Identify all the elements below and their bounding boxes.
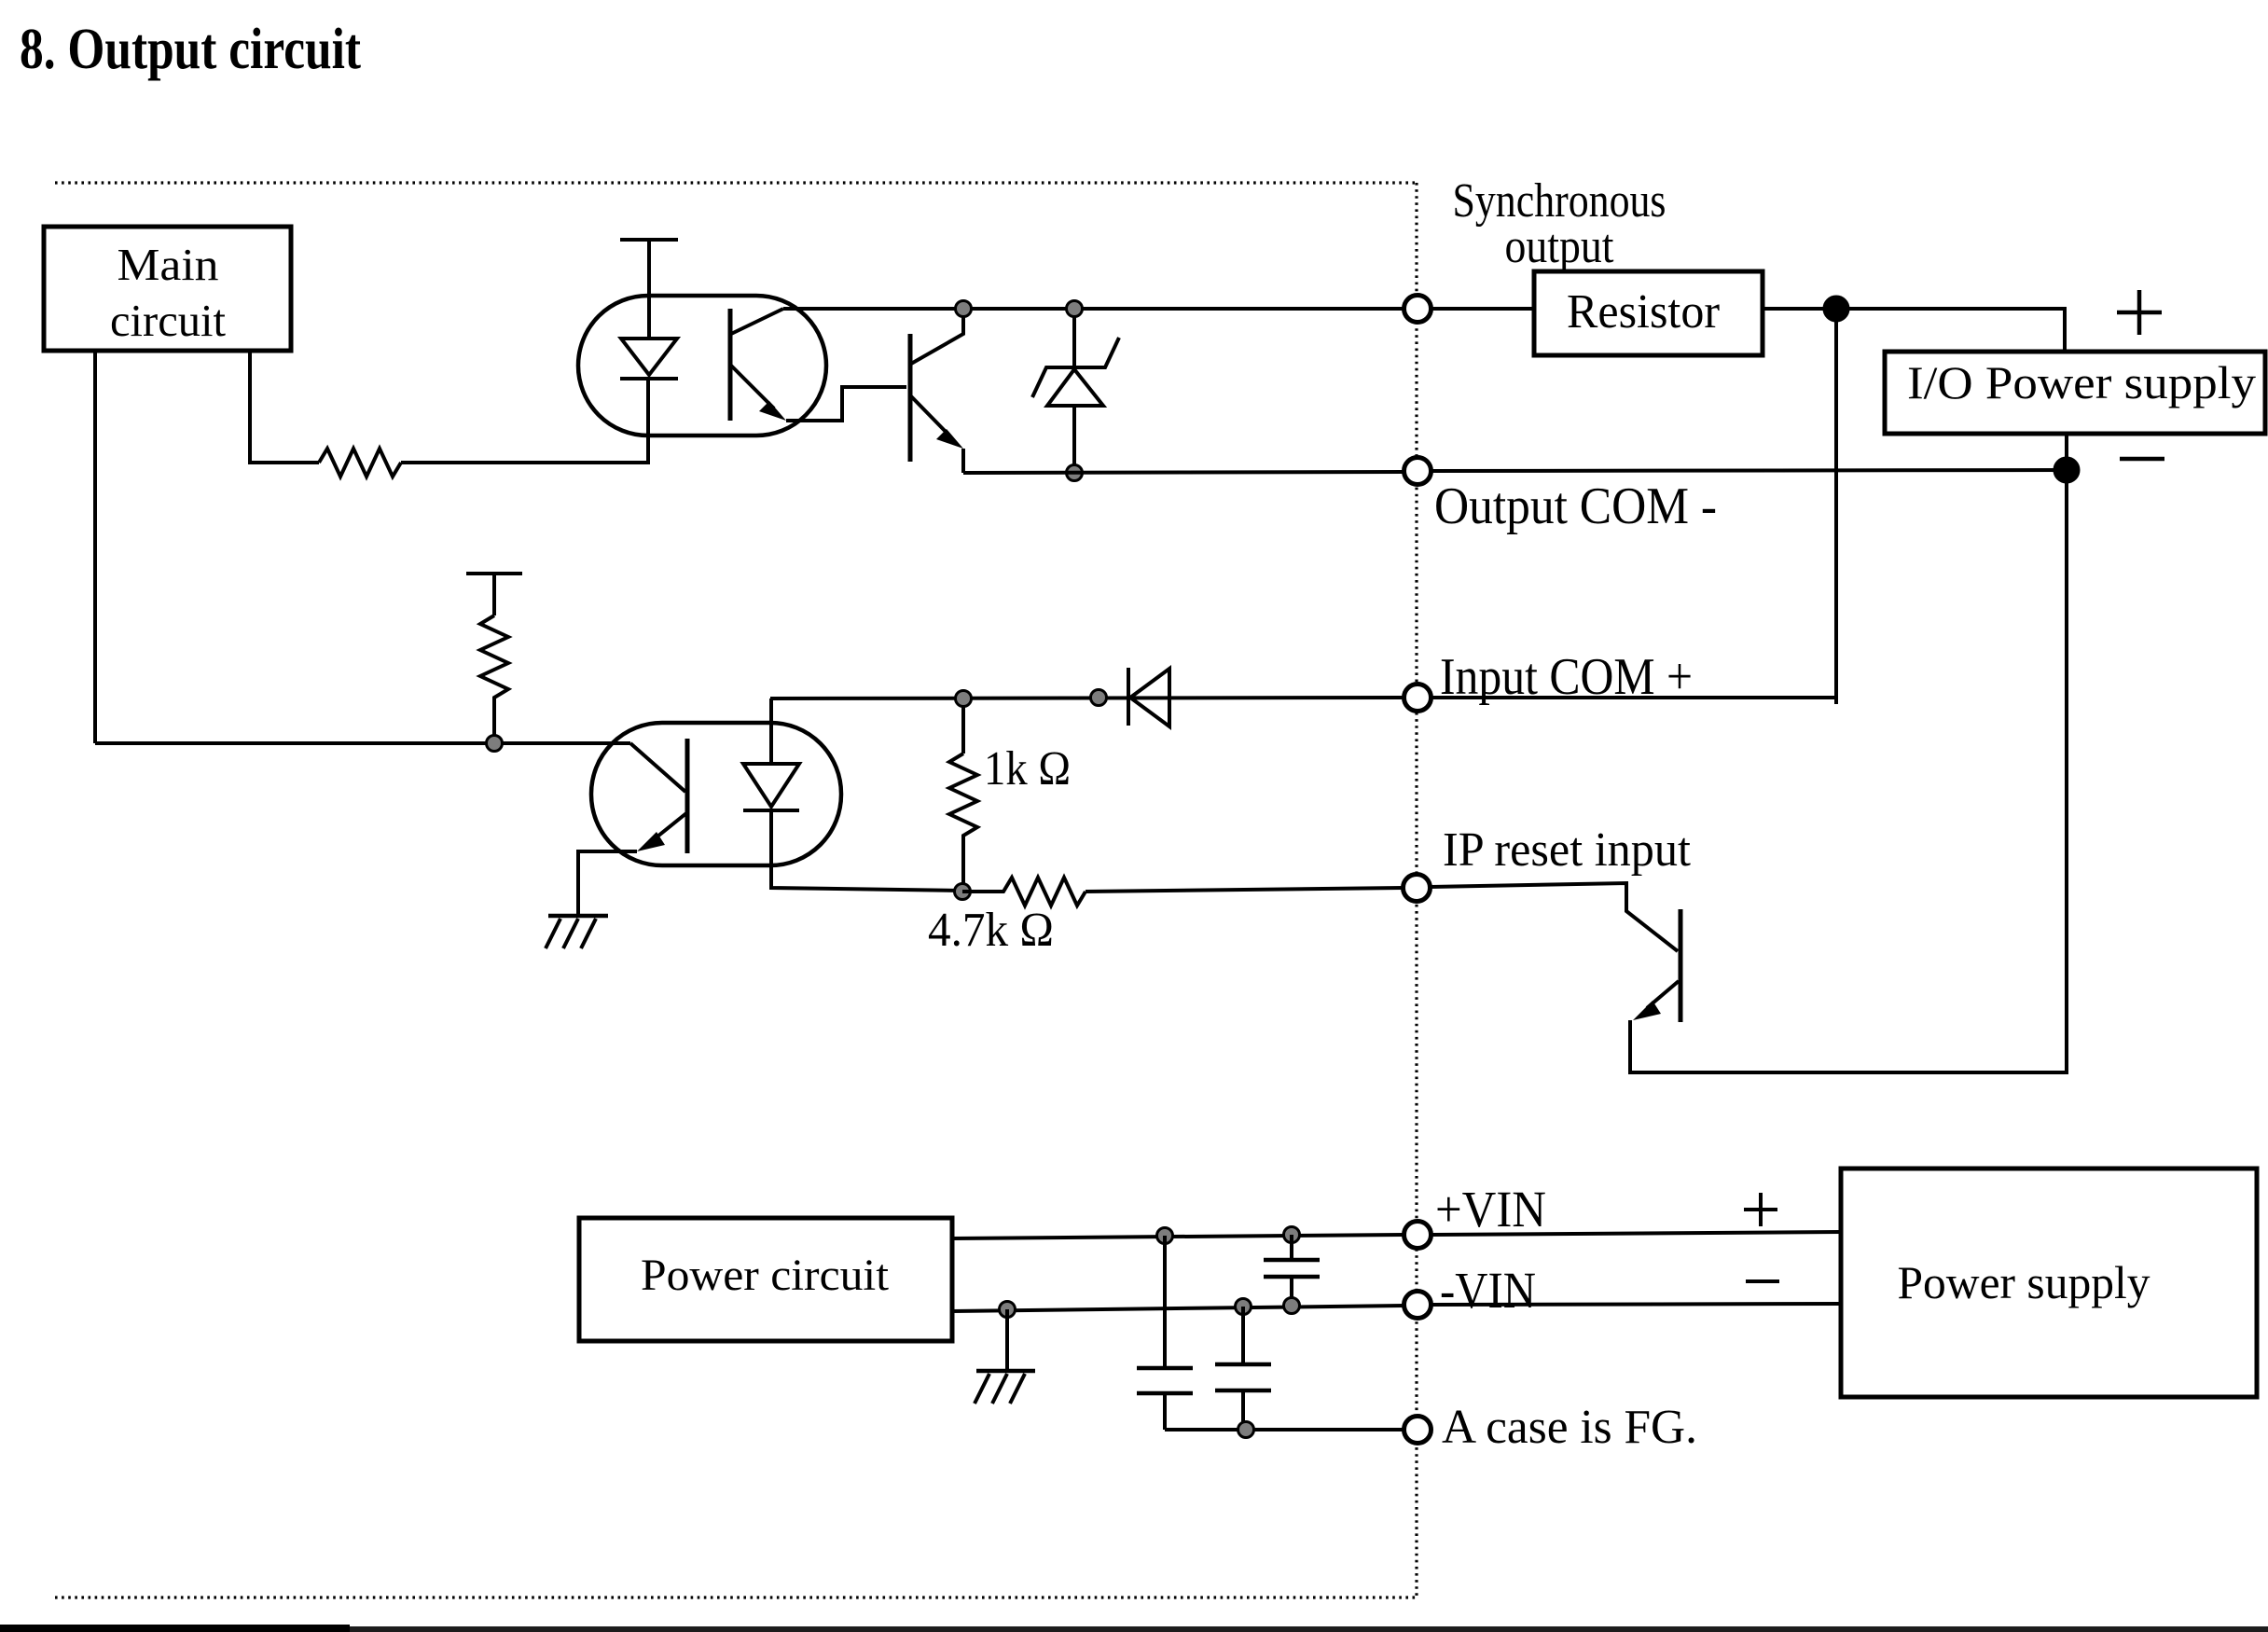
junction node	[1067, 301, 1083, 317]
transistor Q1 emitter	[911, 396, 963, 473]
svg-text:1k Ω: 1k Ω	[984, 742, 1071, 795]
wire I/O box bottom to node	[2065, 434, 2068, 470]
svg-text:Main: Main	[118, 239, 219, 290]
svg-text:+VIN: +VIN	[1435, 1181, 1546, 1238]
diode D2 bar	[1127, 668, 1130, 726]
wire I/O minus down to Q2 emitter	[1630, 470, 2067, 1072]
wire PC1 emitter to Q1 base	[786, 387, 906, 421]
wire IP reset to Q2	[1431, 883, 1678, 951]
pull-up resistor R2 top bar	[466, 574, 522, 615]
phototransistor PC1 bar	[728, 309, 733, 421]
wire -VIN rail	[952, 1306, 1404, 1311]
wire +VIN to power supply	[1431, 1232, 1841, 1235]
ground	[546, 916, 608, 948]
optocoupler PC1 body	[578, 296, 826, 436]
LED D1 anode bar	[620, 240, 678, 339]
wire -VIN to power supply	[1431, 1304, 1841, 1305]
wire main left horizontal to opto2	[95, 741, 630, 745]
svg-text:IP reset input: IP reset input	[1443, 823, 1692, 877]
wire riser node to input COM	[1834, 309, 1838, 704]
wire R1 to opto1 LED	[401, 377, 648, 463]
transistor Q2 emitter	[1630, 981, 1679, 1072]
junction node	[956, 301, 972, 317]
wire main right leg	[250, 352, 319, 463]
junction node	[956, 691, 972, 707]
junction node	[1067, 465, 1083, 481]
svg-text:I/O Power supply: I/O Power supply	[1907, 356, 2256, 408]
Power circuit box	[579, 1218, 952, 1341]
plus sign power	[1744, 1193, 1777, 1226]
svg-text:-VIN: -VIN	[1440, 1262, 1536, 1319]
terminal -VIN	[1404, 1292, 1431, 1319]
wire +VIN rail	[952, 1235, 1404, 1238]
resistor R4 4.7k	[962, 878, 1086, 906]
wire output COM -	[963, 472, 1404, 473]
I/O Power supply box	[1885, 352, 2265, 434]
svg-text:Power supply: Power supply	[1898, 1256, 2150, 1308]
junction node	[1236, 1299, 1252, 1315]
optocoupler PC2 body	[591, 723, 841, 865]
LED D4 cathode lead	[771, 810, 962, 891]
Resistor box	[1534, 271, 1763, 355]
dotted border bottom	[55, 1596, 1417, 1598]
junction node	[487, 736, 503, 752]
capacitor C1	[1137, 1236, 1193, 1430]
svg-text:Output COM -: Output COM -	[1434, 477, 1717, 535]
wire FG	[1165, 1428, 1404, 1431]
plus sign	[2117, 290, 2162, 335]
wire input COM +	[770, 698, 1404, 698]
terminal synchronous output	[1404, 296, 1431, 323]
LED D1 cathode bar	[620, 377, 678, 380]
terminal FG	[1404, 1417, 1431, 1444]
capacitor C2	[1215, 1307, 1271, 1430]
zener diode D3	[1032, 316, 1119, 473]
diode D2 triangle	[1130, 669, 1169, 726]
Power supply box	[1841, 1169, 2257, 1397]
terminal output COM -	[1404, 458, 1431, 485]
terminal input COM +	[1404, 685, 1431, 712]
LED D4 triangle	[743, 764, 799, 807]
svg-text:Power circuit: Power circuit	[641, 1251, 890, 1300]
LED D4 cathode bar	[743, 809, 799, 812]
phototransistor PC1 collector	[731, 309, 783, 334]
phototransistor PC2 bar	[685, 739, 690, 853]
bottom page edge bar	[0, 1626, 2268, 1632]
junction node	[955, 884, 971, 900]
terminal IP reset input	[1404, 875, 1431, 902]
svg-text:8. Output circuit: 8. Output circuit	[20, 18, 361, 81]
svg-text:4.7k Ω: 4.7k Ω	[928, 904, 1054, 957]
dotted border top	[55, 181, 1415, 184]
wire input COM + right to riser	[1431, 696, 1836, 699]
terminal +VIN	[1404, 1222, 1431, 1249]
wire to resistor box	[1431, 307, 1534, 311]
LED D1 triangle	[621, 339, 677, 375]
LED D4 anode riser	[769, 698, 773, 764]
wire node to I/O power supply	[1836, 309, 2065, 352]
junction node	[1091, 690, 1107, 706]
transistor Q1 bar	[908, 334, 913, 462]
resistor R3 1k	[949, 754, 977, 892]
wire main left leg	[93, 352, 97, 743]
junction node	[1157, 1228, 1173, 1244]
junction node	[1284, 1227, 1300, 1243]
dotted border right	[1415, 183, 1417, 1597]
transistor Q1 collector	[911, 309, 963, 364]
minus sign	[2120, 457, 2164, 462]
transistor Q2 bar	[1679, 909, 1683, 1022]
pull-up resistor R2	[480, 615, 508, 743]
svg-text:A case is FG.: A case is FG.	[1442, 1401, 1697, 1454]
ground power	[975, 1309, 1035, 1404]
resistor R3 1k lead	[961, 706, 965, 754]
wire top rail (collector to sync terminal)	[783, 307, 1404, 311]
wire R4 to IP reset terminal	[1086, 888, 1404, 892]
svg-text:circuit: circuit	[110, 295, 226, 346]
phototransistor PC2 emitter	[637, 813, 686, 851]
junction node	[1238, 1422, 1254, 1438]
minus sign power	[1746, 1279, 1779, 1283]
wire PC2 emitter to ground	[578, 851, 637, 916]
Main circuit box	[44, 227, 291, 351]
junction node	[1000, 1302, 1016, 1318]
phototransistor PC1 emitter	[731, 366, 786, 421]
phototransistor PC2 collector	[630, 743, 685, 792]
resistor R1	[319, 449, 401, 477]
wire output COM - right	[1431, 470, 2067, 471]
capacitor C3	[1264, 1235, 1320, 1306]
junction node	[1824, 297, 1849, 322]
junction node	[2054, 458, 2080, 483]
wire resistor to node	[1763, 307, 1836, 311]
junction node	[1284, 1298, 1300, 1314]
svg-text:Resistor: Resistor	[1567, 285, 1720, 339]
svg-text:output: output	[1505, 220, 1614, 273]
